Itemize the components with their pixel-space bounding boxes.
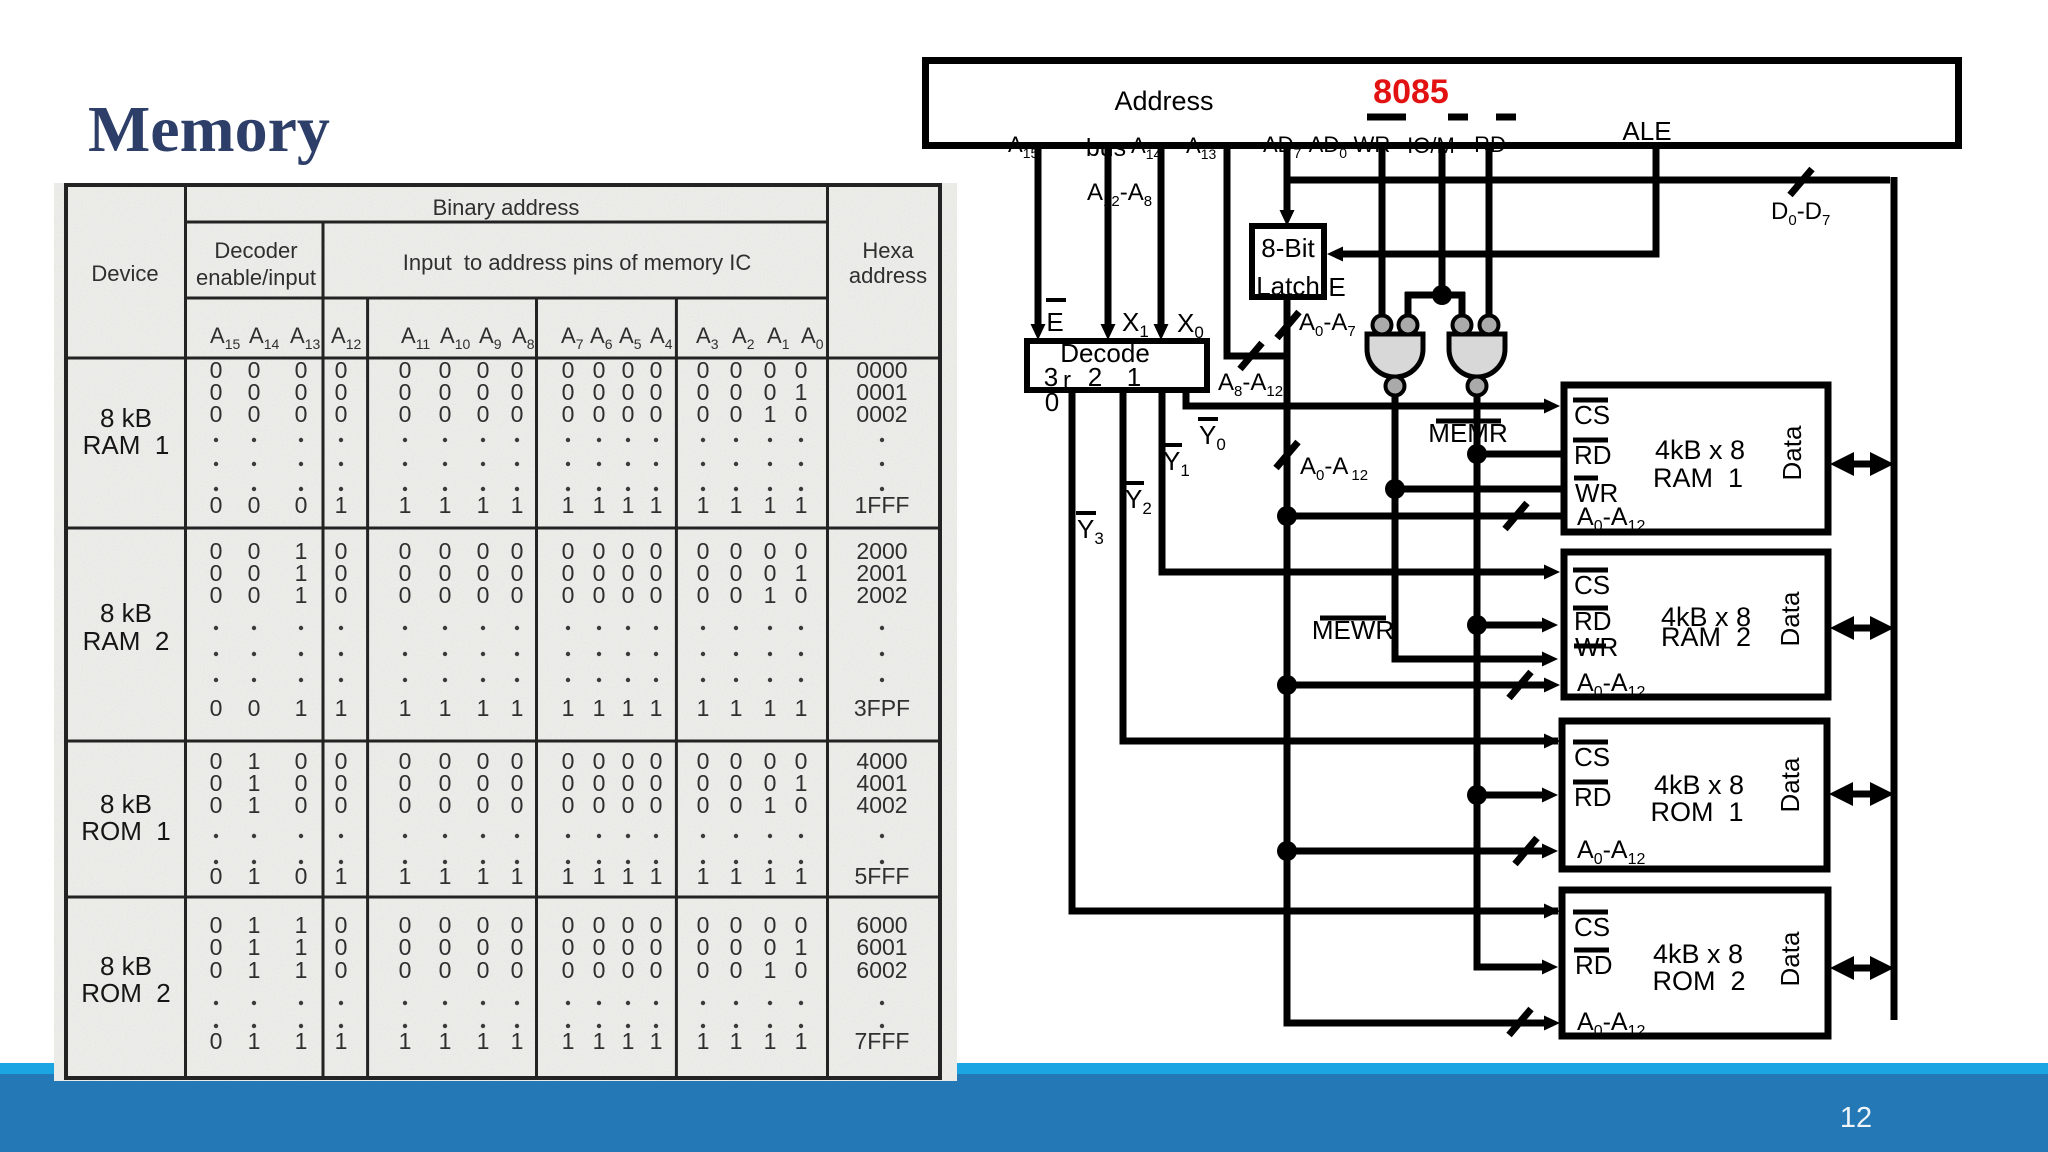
data bus arrow RAM2 xyxy=(1845,625,1875,632)
svg-text:A12-A8: A12-A8 xyxy=(1087,179,1152,210)
bus slash D0-D7 xyxy=(1790,169,1812,195)
wire A0-A12 to ROM1 xyxy=(1287,848,1546,855)
svg-text:RAM 2: RAM 2 xyxy=(1661,622,1751,652)
svg-text:Hexa: Hexa xyxy=(862,238,914,263)
svg-text:D0-D7: D0-D7 xyxy=(1771,198,1830,229)
svg-text:ALE: ALE xyxy=(1622,116,1671,146)
wire A0-A12 to RAM1 xyxy=(1287,513,1564,520)
wire Y1 to RAM2 CS xyxy=(1162,390,1548,572)
bottom dark blue band xyxy=(0,1074,2048,1152)
svg-text:enable/input: enable/input xyxy=(196,265,316,290)
svg-text:1FFF: 1FFF xyxy=(855,492,910,518)
svg-text:4002: 4002 xyxy=(856,792,907,818)
wire branch to data bus D0-D7 xyxy=(1287,177,1890,184)
svg-text:2: 2 xyxy=(1088,362,1102,392)
data bus arrow RAM1 xyxy=(1845,461,1875,468)
svg-text:ROM 1: ROM 1 xyxy=(1650,797,1743,827)
svg-text:Data: Data xyxy=(1775,591,1805,646)
svg-text:r: r xyxy=(1063,367,1071,394)
data bus arrow ROM1 xyxy=(1845,791,1875,798)
svg-text:Data: Data xyxy=(1775,757,1805,812)
svg-text:Address: Address xyxy=(1114,86,1213,116)
memory chip RAM1 (4kB x 8) xyxy=(1564,385,1828,532)
svg-text:CS: CS xyxy=(1574,400,1610,430)
svg-text:5FFF: 5FFF xyxy=(855,863,910,889)
svg-text:RAM 2: RAM 2 xyxy=(83,626,170,656)
bus slash A0-A12 xyxy=(1276,442,1298,468)
data bus arrow ROM2 xyxy=(1845,965,1875,972)
svg-text:RD: RD xyxy=(1575,950,1613,980)
svg-text:E: E xyxy=(1046,307,1063,337)
svg-text:Memory: Memory xyxy=(88,93,330,166)
decoder U5 (2-to-4) xyxy=(1027,341,1207,390)
wire ALE to latch E xyxy=(1343,146,1656,254)
wire IO/M to gates xyxy=(1439,146,1446,295)
memory chip ROM2 (4kB x 8) xyxy=(1562,890,1828,1036)
svg-text:address: address xyxy=(849,263,927,288)
data bus vertical D0-D7 xyxy=(1891,177,1898,1020)
svg-text:RAM 1: RAM 1 xyxy=(83,430,170,460)
svg-text:0: 0 xyxy=(1045,387,1059,417)
NAND gate U3 (MEMR) xyxy=(1449,334,1505,377)
junction IO/M node xyxy=(1432,285,1452,305)
svg-text:CS: CS xyxy=(1574,912,1610,942)
svg-text:6002: 6002 xyxy=(856,957,907,983)
wire latch output A0-A12 vertical, to ROM2 A0-A12 xyxy=(1287,297,1548,1023)
svg-text:4kB x 8: 4kB x 8 xyxy=(1654,770,1744,800)
svg-text:RAM 1: RAM 1 xyxy=(1653,463,1743,493)
NAND gate U2 (MEMW) xyxy=(1367,334,1423,377)
svg-text:4kB x 8: 4kB x 8 xyxy=(1655,435,1745,465)
svg-text:2002: 2002 xyxy=(856,582,907,608)
svg-text:Data: Data xyxy=(1775,931,1805,986)
svg-text:Binary address: Binary address xyxy=(433,195,580,220)
svg-text:8085: 8085 xyxy=(1373,73,1449,111)
svg-text:Latch: Latch xyxy=(1256,271,1320,301)
svg-text:3FPF: 3FPF xyxy=(854,695,910,721)
svg-text:AD7-AD0: AD7-AD0 xyxy=(1263,132,1347,161)
wire A12-A8 bus down into latch output node xyxy=(1227,146,1287,356)
svg-text:8-Bit: 8-Bit xyxy=(1261,233,1315,263)
wire MEMW: gate U2 output to RAM1 WR and RAM2 WR xyxy=(1395,395,1546,659)
memory chip ROM1 (4kB x 8) xyxy=(1562,721,1827,869)
svg-text:8 kB: 8 kB xyxy=(100,403,152,433)
svg-text:ROM 2: ROM 2 xyxy=(81,978,171,1008)
8085 CPU box U1 xyxy=(926,61,1959,146)
wire Y0 to RAM1 CS xyxy=(1186,390,1548,406)
svg-text:4kB x 8: 4kB x 8 xyxy=(1653,939,1743,969)
wire Y3 to ROM2 CS xyxy=(1072,390,1558,911)
wire MEMR: gate U3 output to RAM/ROM RD pins xyxy=(1477,395,1546,967)
bus slash A8-A12 xyxy=(1240,343,1262,369)
scanned table of memory addresses xyxy=(54,183,957,1081)
wire A14 to decoder X1 xyxy=(1105,146,1112,330)
svg-text:Decoder: Decoder xyxy=(214,238,297,263)
wire A15 to decoder E xyxy=(1035,146,1042,330)
wire AD7-AD0 into latch xyxy=(1284,146,1291,212)
svg-text:8 kB: 8 kB xyxy=(100,951,152,981)
svg-text:8 kB: 8 kB xyxy=(100,598,152,628)
wire A0-A12 to RAM2 xyxy=(1287,682,1548,689)
svg-text:CS: CS xyxy=(1574,570,1610,600)
svg-text:ROM 2: ROM 2 xyxy=(1652,966,1745,996)
svg-text:CS: CS xyxy=(1574,742,1610,772)
svg-text:ROM 1: ROM 1 xyxy=(81,816,171,846)
wire WR to gate U2 input xyxy=(1379,146,1386,320)
svg-text:8 kB: 8 kB xyxy=(100,789,152,819)
svg-text:Data: Data xyxy=(1777,425,1807,480)
bottom light blue strip xyxy=(0,1063,2048,1074)
memory chip RAM2 (4kB x 8) xyxy=(1564,552,1828,697)
svg-text:0002: 0002 xyxy=(856,401,907,427)
8-Bit Latch U4 xyxy=(1252,226,1324,297)
wire Y2 to ROM1 CS xyxy=(1123,390,1558,741)
wire RD to gate U3 input xyxy=(1486,146,1493,320)
bus slash A0-A7 xyxy=(1277,312,1299,338)
wire A13 to decoder X0 xyxy=(1158,146,1165,330)
svg-text:12: 12 xyxy=(1840,1102,1872,1134)
svg-text:1: 1 xyxy=(1127,362,1141,392)
svg-text:RD: RD xyxy=(1574,440,1612,470)
svg-text:Input to address pins of memo: Input to address pins of memory IC xyxy=(403,250,752,275)
svg-text:E: E xyxy=(1328,272,1345,302)
svg-text:A0-A7: A0-A7 xyxy=(1299,309,1356,340)
svg-text:RD: RD xyxy=(1574,782,1612,812)
slash on ROM2 A0-A12 wire xyxy=(1509,1009,1531,1035)
svg-text:7FFF: 7FFF xyxy=(855,1028,910,1054)
svg-text:Device: Device xyxy=(91,261,158,286)
svg-text:IO/M: IO/M xyxy=(1407,133,1455,158)
